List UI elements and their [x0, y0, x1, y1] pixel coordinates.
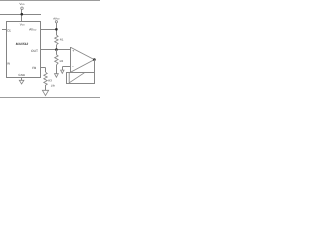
background	[0, 0, 100, 100]
wire GND pin	[21, 78, 23, 81]
svg-text:+: +	[72, 49, 74, 53]
bottom border line	[0, 97, 100, 99]
wire FB pin	[40, 67, 46, 69]
graph axis tick	[68, 72, 70, 82]
svg-text:IN: IN	[7, 61, 10, 65]
power AVDD terminal circle	[55, 21, 57, 23]
graph box load	[67, 73, 95, 84]
node VDD junction	[21, 13, 24, 16]
node op-amp output	[93, 58, 96, 61]
svg-text:R2: R2	[60, 59, 64, 63]
ground under inverting input	[61, 70, 64, 73]
wire R3 to ground	[45, 85, 47, 90]
svg-text:OUT: OUT	[31, 49, 38, 53]
wire VDD stub to IC	[21, 9, 23, 21]
svg-text:GND: GND	[18, 73, 26, 77]
op-amp U1 body	[70, 47, 72, 73]
ground under GND pin	[19, 80, 24, 84]
wire AVDD pin	[40, 29, 57, 31]
svg-text:R3: R3	[48, 79, 52, 83]
node AVDD junction	[55, 28, 58, 31]
wire R1 to node	[56, 45, 58, 50]
svg-text:CE: CE	[7, 29, 11, 33]
pin stub CE	[2, 29, 6, 31]
ground under R2	[55, 74, 59, 78]
resistor R2	[55, 55, 58, 65]
svg-text:10k: 10k	[51, 84, 56, 87]
wire AVDD vertical	[56, 23, 58, 35]
wire node to R2	[56, 50, 58, 55]
wire R2 to ground	[56, 65, 58, 74]
top border line	[0, 0, 100, 2]
svg-text:MAX512: MAX512	[16, 42, 29, 46]
node divider junction	[55, 48, 58, 51]
wire inverting input	[63, 66, 71, 68]
resistor R3	[44, 72, 47, 85]
IC U2 MAX512 box	[7, 22, 41, 78]
wire VDD rail	[0, 14, 41, 16]
graph ramp line	[69, 73, 84, 83]
wire OUT to op-amp	[40, 49, 71, 51]
svg-text:FB: FB	[32, 66, 36, 70]
power VDD terminal circle	[21, 7, 23, 9]
svg-text:R1: R1	[60, 38, 64, 42]
svg-text:−: −	[72, 65, 74, 69]
wire output down	[94, 60, 96, 84]
ground under R3	[42, 90, 48, 95]
resistor R1	[55, 35, 58, 45]
